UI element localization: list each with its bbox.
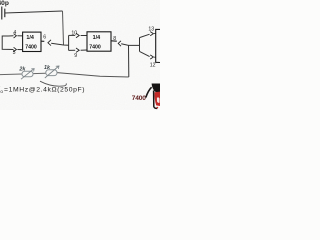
svg-text:4: 4	[13, 30, 16, 36]
bottom rail wire right section	[57, 73, 129, 77]
connector arrow into pin 4	[14, 34, 17, 38]
wire gate1 output to gate2 bracket	[51, 43, 68, 45]
connector arrow into pin 13	[150, 32, 153, 36]
potentiometer R1 wiper arrow	[21, 69, 34, 79]
bottom rail wire mid section	[33, 72, 46, 74]
svg-text:2k: 2k	[18, 67, 26, 73]
svg-text:5: 5	[13, 50, 16, 56]
svg-text:10: 10	[71, 31, 77, 37]
wire top rail from C1 to corner	[5, 11, 63, 13]
wire U1C bottom input branch	[140, 51, 150, 56]
potentiometer R2 body	[46, 70, 57, 76]
connector arrow at pin 6 output	[48, 40, 51, 46]
gate U1B input bracket	[68, 35, 70, 50]
pin 6 stub	[41, 40, 44, 42]
capacitor C1	[2, 7, 5, 20]
wire U1A top input	[9, 35, 14, 37]
connector arrow at pin 8 output	[118, 41, 121, 46]
gate U1C box cropped at right edge	[156, 29, 160, 62]
gate U1A input bracket	[2, 36, 8, 49]
svg-text:7400: 7400	[89, 45, 101, 51]
svg-text:8: 8	[113, 36, 116, 42]
svg-text:o: o	[0, 89, 3, 94]
pin 10 stub	[81, 35, 87, 37]
potentiometer R1 body	[22, 71, 33, 77]
logo red dot	[156, 107, 158, 109]
gate U1B box	[87, 32, 111, 51]
svg-text:7400: 7400	[132, 95, 146, 102]
connector arrow into pin 9	[76, 48, 79, 52]
svg-text:1/4: 1/4	[93, 35, 101, 41]
wire feedback vertical down to node A	[63, 11, 64, 45]
potentiometer R2 wiper arrow	[45, 66, 59, 78]
pin 13 stub	[154, 33, 156, 35]
svg-text:40p: 40p	[0, 0, 9, 7]
pin 9 stub	[81, 49, 87, 51]
wire feedback tee down at node B	[128, 45, 130, 77]
logo black left stroke	[146, 87, 152, 97]
svg-text:12: 12	[150, 62, 156, 68]
wire U1C top input branch	[140, 34, 150, 37]
svg-text:7400: 7400	[25, 44, 37, 50]
svg-text:13: 13	[148, 26, 154, 32]
gate U1A box	[23, 32, 41, 51]
logo red blob white notch	[157, 97, 160, 102]
wire U1A bottom input	[9, 48, 14, 50]
connector arrow into pin 5	[14, 47, 17, 51]
svg-text:9: 9	[74, 53, 77, 59]
wire U1B top input	[69, 34, 76, 36]
connector arrow into pin 12	[150, 55, 153, 59]
wire U1B bottom input	[69, 49, 76, 51]
logo black vertical stroke	[154, 91, 158, 109]
pin 8 stub	[111, 40, 117, 42]
logo red blob	[155, 92, 160, 106]
gate U1C input bracket	[139, 38, 141, 52]
pin 12 stub	[154, 56, 156, 58]
svg-text:6: 6	[43, 35, 46, 41]
connector arrow into pin 10	[76, 33, 79, 37]
scan noise overlay	[0, 0, 160, 110]
logo black top wedge	[152, 84, 160, 93]
svg-text:1k: 1k	[44, 65, 51, 71]
bottom rail wire left section	[0, 73, 22, 76]
svg-text:=1MHz@2.4kΩ(250pF): =1MHz@2.4kΩ(250pF)	[4, 87, 85, 94]
pin 4 stub	[17, 35, 22, 37]
hand-drawn swoosh mark under R2	[40, 81, 66, 86]
pin 5 stub	[17, 49, 22, 51]
wire gate2 output to gate3 bracket	[121, 44, 139, 46]
svg-text:1/4: 1/4	[26, 35, 34, 41]
